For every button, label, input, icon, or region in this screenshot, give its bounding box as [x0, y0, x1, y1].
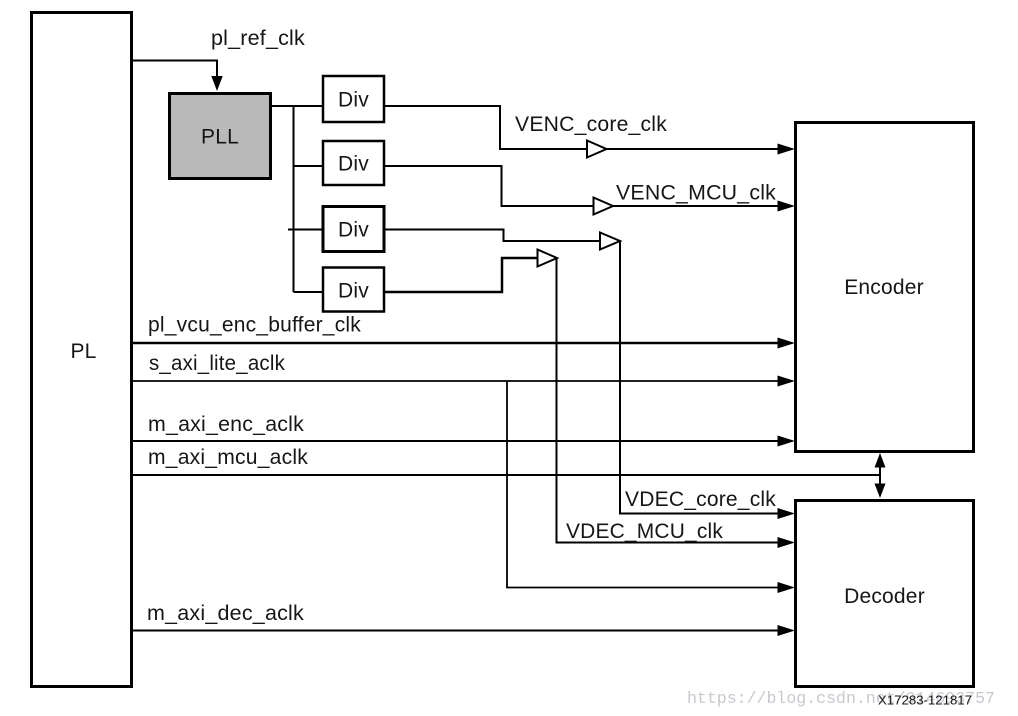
block Encoder [796, 123, 974, 452]
svg-text:Encoder: Encoder [844, 276, 924, 299]
svg-text:s_axi_lite_aclk: s_axi_lite_aclk [149, 352, 285, 375]
wire Div3 to buffer B3 [385, 230, 600, 242]
wire buffer B1 to Encoder [607, 144, 796, 155]
divider Div2 [323, 141, 384, 185]
PLL U1 [170, 94, 271, 179]
buffer B3 VDEC_core [600, 233, 620, 250]
svg-text:VDEC_core_clk: VDEC_core_clk [625, 488, 776, 511]
svg-text:VENC_MCU_clk: VENC_MCU_clk [616, 182, 776, 205]
divider Div1 [323, 76, 384, 122]
block PL [32, 13, 132, 687]
wire double arrow Encoder-Decoder [875, 453, 886, 498]
wire PLL output trunk [272, 106, 322, 292]
wire pl_ref_clk from PL to PLL [133, 61, 223, 92]
buffer B2 VENC_MCU [594, 198, 614, 215]
svg-text:m_axi_dec_aclk: m_axi_dec_aclk [147, 602, 304, 625]
wire m_axi_enc_aclk [133, 436, 795, 447]
wire Div2 to buffer B2 [385, 166, 594, 206]
svg-text:m_axi_mcu_aclk: m_axi_mcu_aclk [148, 446, 308, 469]
wire buffer B2 to Encoder [613, 201, 795, 212]
buffer B4 VDEC_MCU [538, 250, 558, 267]
wire m_axi_mcu_aclk [133, 474, 880, 476]
svg-text:VDEC_MCU_clk: VDEC_MCU_clk [566, 520, 723, 543]
svg-text:Div: Div [338, 89, 369, 112]
svg-text:pl_vcu_enc_buffer_clk: pl_vcu_enc_buffer_clk [148, 314, 361, 337]
svg-text:pl_ref_clk: pl_ref_clk [211, 27, 305, 50]
svg-text:Div: Div [338, 153, 369, 176]
wire s_axi_lite_aclk branch to Decoder [507, 381, 795, 593]
buffer B1 VENC_core [587, 141, 607, 158]
wire pl_vcu_enc_buffer_clk [133, 338, 795, 349]
wire buffer B4 down to Decoder VDEC_MCU_clk [557, 258, 796, 548]
wire Div4 to buffer B4 [385, 258, 538, 292]
wire m_axi_dec_aclk [133, 625, 795, 636]
svg-text:Div: Div [338, 219, 369, 242]
block Decoder [796, 501, 974, 687]
divider Div3 [323, 207, 384, 252]
svg-text:X17283-121817: X17283-121817 [878, 693, 972, 708]
svg-text:PL: PL [70, 340, 96, 363]
svg-text:Decoder: Decoder [844, 585, 925, 608]
svg-text:Div: Div [338, 280, 369, 303]
svg-text:PLL: PLL [201, 126, 239, 149]
svg-text:m_axi_enc_aclk: m_axi_enc_aclk [148, 413, 304, 436]
divider Div4 [323, 268, 384, 312]
svg-text:VENC_core_clk: VENC_core_clk [515, 113, 667, 136]
wire s_axi_lite_aclk to Encoder [133, 376, 795, 387]
wire buffer B3 down to Decoder VDEC_core_clk [620, 241, 795, 519]
wire Div1 to buffer B1 [385, 106, 587, 149]
